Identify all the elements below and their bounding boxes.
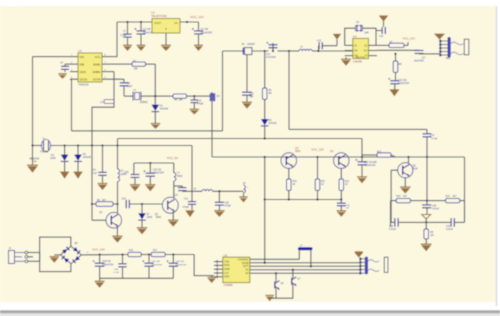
junction bbox=[310, 265, 312, 267]
transistor Q7 bbox=[292, 269, 301, 286]
capacitor C21 100uF bbox=[355, 156, 377, 176]
svg-text:T50962: T50962 bbox=[40, 151, 49, 154]
svg-text:C15: C15 bbox=[317, 41, 322, 43]
svg-text:0.01uF: 0.01uF bbox=[432, 208, 440, 210]
resistor R6 4K7 bbox=[92, 200, 118, 206]
power label VCC_5V bbox=[167, 156, 178, 160]
svg-text:DOT: DOT bbox=[243, 264, 249, 268]
svg-text:100uF/25V: 100uF/25V bbox=[201, 31, 213, 34]
capacitor C4 bbox=[60, 63, 70, 73]
wire rail to U2 VCC bbox=[105, 22, 118, 57]
svg-text:CM288: CM288 bbox=[353, 60, 362, 64]
svg-text:1N48: 1N48 bbox=[50, 158, 56, 160]
bus wire 5 bbox=[250, 272, 360, 274]
svg-text:TXD: TXD bbox=[224, 259, 229, 263]
power label VCC_12V mid bbox=[311, 147, 324, 151]
svg-text:C16: C16 bbox=[379, 36, 384, 38]
ground bbox=[190, 109, 200, 115]
svg-text:GND: GND bbox=[80, 70, 86, 74]
junction bbox=[172, 253, 174, 255]
junction bbox=[91, 203, 93, 205]
svg-text:R15: R15 bbox=[446, 196, 451, 198]
resistor R9 1M bbox=[424, 222, 434, 243]
svg-text:0.01uF: 0.01uF bbox=[389, 229, 397, 231]
wire 12V rail top bbox=[117, 21, 199, 23]
vcc5 wire bbox=[134, 162, 174, 164]
svg-text:4K7: 4K7 bbox=[453, 196, 458, 198]
svg-text:C29 CM: C29 CM bbox=[102, 261, 111, 263]
svg-text:1M: 1M bbox=[430, 235, 433, 237]
resistor R7 bbox=[377, 42, 408, 48]
junction bbox=[288, 50, 290, 52]
bridge rectifier D8 bbox=[61, 242, 82, 264]
wire mid rail bbox=[223, 50, 245, 52]
svg-text:GND: GND bbox=[224, 267, 230, 271]
wire U4 pin2 rail bbox=[345, 50, 353, 53]
ground bbox=[207, 276, 216, 283]
base wire Q1 bbox=[92, 219, 106, 221]
ground bbox=[123, 45, 132, 51]
junction bbox=[193, 95, 195, 97]
svg-text:C31 CM: C31 CM bbox=[152, 261, 160, 263]
wire mid rail 3 bbox=[319, 50, 345, 52]
capacitor C23 label bbox=[446, 226, 454, 231]
capacitor C25 1.1uF bbox=[124, 163, 139, 184]
junction bbox=[154, 95, 156, 97]
diode D7 1N4148 bbox=[138, 204, 152, 227]
ground pin U1 bbox=[161, 33, 171, 51]
capacitor C19 4.7uF bbox=[423, 129, 438, 157]
svg-text:C26 CM: C26 CM bbox=[153, 169, 162, 171]
crystal Y2 12MHz bbox=[131, 89, 148, 104]
crystal Y3 bbox=[355, 22, 368, 34]
wire loop L1 horizontal bbox=[72, 130, 223, 132]
junction bbox=[141, 203, 143, 205]
wire bottom chain bbox=[141, 254, 151, 256]
svg-text:78L05TO92: 78L05TO92 bbox=[151, 14, 167, 18]
jumper L7 bbox=[298, 244, 313, 266]
capacitor C29 100uF bbox=[93, 255, 114, 279]
junction bbox=[98, 253, 100, 255]
transistor Q2 8050 bbox=[155, 197, 179, 219]
capacitor C8 22pF bbox=[120, 79, 133, 96]
svg-text:VCC_12V: VCC_12V bbox=[311, 147, 324, 151]
capacitor C10 470pF bbox=[191, 96, 205, 109]
svg-text:470pF: 470pF bbox=[197, 103, 204, 105]
diode D6 1N4148 bbox=[261, 119, 277, 139]
wire base rail bbox=[212, 156, 465, 158]
component 15K bbox=[100, 100, 114, 104]
svg-text:1N4148: 1N4148 bbox=[268, 123, 277, 125]
inductor L6 bbox=[193, 189, 241, 192]
capacitor C15 bbox=[317, 41, 337, 51]
diode D5 bbox=[242, 43, 256, 54]
connector P3 body bbox=[365, 257, 388, 275]
wire mid rail 2 bbox=[252, 50, 289, 52]
svg-text:C28: C28 bbox=[225, 203, 230, 205]
svg-text:1.1uF: 1.1uF bbox=[113, 272, 119, 274]
junction bbox=[77, 144, 79, 146]
svg-text:22pF: 22pF bbox=[127, 86, 133, 88]
wire osc row 2 bbox=[144, 95, 173, 97]
power label VCC_12V bbox=[190, 15, 205, 19]
capacitor C12 470pF bbox=[182, 199, 196, 210]
wire osc row bbox=[124, 95, 131, 97]
jack wires bbox=[28, 253, 40, 262]
emitter Q2 ground bbox=[168, 212, 178, 227]
wire rail 455 bbox=[33, 145, 193, 147]
svg-text:R17: R17 bbox=[153, 250, 158, 252]
resistor R13 bbox=[362, 151, 395, 157]
junction bbox=[264, 156, 266, 201]
right edge line bbox=[496, 6, 497, 306]
wire INA to node bbox=[33, 56, 71, 58]
base wire bbox=[391, 170, 398, 222]
capacitor C7 0.1uF bbox=[120, 23, 131, 45]
bottom shadow line bbox=[0, 310, 500, 316]
regulator U1 78L05 bbox=[151, 11, 180, 33]
wire bottom chain 2 bbox=[165, 254, 194, 256]
wire down from rail bbox=[288, 51, 290, 129]
junction bbox=[126, 21, 128, 23]
capacitor C32 100uF bbox=[167, 255, 188, 279]
svg-text:4K7: 4K7 bbox=[403, 196, 408, 198]
svg-text:C14: C14 bbox=[266, 54, 271, 56]
emitter resistor R12 bbox=[339, 168, 350, 199]
ground bbox=[145, 184, 155, 191]
power label VCC_12V right bbox=[403, 37, 416, 41]
svg-text:MIC: MIC bbox=[446, 57, 451, 60]
ground bbox=[27, 146, 38, 173]
capacitor C27 0.1uF bbox=[174, 186, 187, 197]
diode D3 1N4148 bbox=[74, 146, 91, 172]
capacitor C2 100uF/25V bbox=[134, 23, 155, 45]
svg-text:VCC: VCC bbox=[95, 55, 101, 59]
svg-text:VO: VO bbox=[364, 50, 368, 53]
lower net top bbox=[391, 200, 465, 202]
wire right drop bbox=[464, 157, 466, 222]
wire feedback net bbox=[91, 146, 93, 221]
transistor Q1 9018 bbox=[99, 211, 121, 228]
svg-text:100uF/25V: 100uF/25V bbox=[102, 264, 114, 266]
svg-text:470pF: 470pF bbox=[225, 206, 232, 208]
capacitor C33 1uF bbox=[337, 200, 350, 211]
svg-text:0.1uF: 0.1uF bbox=[120, 34, 127, 37]
connector P3 pins bbox=[359, 257, 365, 274]
svg-text:DA0B: DA0B bbox=[242, 261, 249, 265]
bus wire 3 bbox=[250, 265, 360, 267]
svg-text:OUTB: OUTB bbox=[93, 77, 101, 81]
ground arrow bbox=[355, 251, 364, 257]
wire left rail drop bbox=[264, 157, 266, 200]
svg-text:12MHZ: 12MHZ bbox=[140, 101, 149, 104]
bottom rail bbox=[265, 199, 342, 201]
pin stubs U5 left bbox=[214, 260, 223, 278]
power label VCC_12V bottom bbox=[92, 248, 105, 252]
resistor R5 2M bbox=[262, 51, 272, 119]
svg-text:10K: 10K bbox=[179, 99, 184, 102]
connector P2 body bbox=[446, 37, 469, 60]
ground bbox=[242, 102, 252, 109]
wire to P2 bbox=[419, 53, 440, 55]
wire loop L2 bbox=[118, 138, 363, 140]
svg-text:1uF: 1uF bbox=[346, 208, 350, 210]
junction bbox=[407, 156, 409, 158]
resistor R17 bbox=[151, 250, 165, 257]
svg-text:C10: C10 bbox=[197, 100, 202, 102]
svg-text:C20: C20 bbox=[432, 205, 437, 207]
capacitor C13 47uF bbox=[246, 55, 248, 92]
capacitor C30 1.1uF bbox=[113, 255, 126, 279]
svg-text:9018: 9018 bbox=[412, 168, 418, 170]
label 7M bbox=[30, 157, 40, 163]
junction bbox=[121, 253, 123, 255]
connector P2 pins bbox=[439, 40, 447, 56]
capacitor C11 1.1uF bbox=[91, 146, 107, 184]
wire down bbox=[426, 157, 428, 201]
capacitor C28 470pF bbox=[215, 191, 232, 210]
svg-text:R16: R16 bbox=[129, 250, 134, 252]
svg-text:10MH: 10MH bbox=[121, 174, 127, 176]
svg-text:RXD: RXD bbox=[224, 263, 230, 267]
svg-text:INB: INB bbox=[80, 62, 85, 66]
svg-text:2M: 2M bbox=[268, 93, 271, 95]
wire node down left bbox=[32, 57, 34, 146]
svg-text:C22: C22 bbox=[389, 226, 394, 228]
capacitor C17 10uF bbox=[414, 50, 426, 63]
junction bbox=[218, 190, 220, 192]
svg-text:4.7uF: 4.7uF bbox=[432, 138, 438, 140]
ground arrow bbox=[239, 196, 247, 202]
svg-text:Vin: Vin bbox=[174, 21, 178, 25]
svg-text:INA: INA bbox=[80, 55, 85, 59]
wire osc row 3 bbox=[187, 95, 211, 97]
svg-text:VCC_12V: VCC_12V bbox=[92, 248, 105, 252]
junction bbox=[425, 221, 427, 223]
inductor L2 bbox=[289, 45, 319, 51]
junction bbox=[272, 50, 274, 52]
junction bbox=[288, 198, 343, 200]
svg-text:8050: 8050 bbox=[295, 150, 301, 153]
ground bbox=[130, 184, 140, 191]
svg-text:C17: C17 bbox=[422, 57, 427, 59]
svg-text:R10: R10 bbox=[293, 181, 298, 183]
ground bbox=[357, 176, 367, 183]
capacitor C26 100uF bbox=[143, 163, 164, 184]
capacitor C20 0.01uF bbox=[422, 201, 440, 215]
bridge loop wire 2 bbox=[40, 253, 71, 272]
wire collector Q1 bbox=[117, 186, 119, 213]
svg-text:C21 R=10R: C21 R=10R bbox=[365, 162, 377, 164]
crystal Y1 bbox=[40, 138, 51, 154]
svg-text:VCC_5V: VCC_5V bbox=[167, 156, 178, 160]
svg-text:C12: C12 bbox=[184, 199, 189, 201]
svg-text:VOUT: VOUT bbox=[154, 21, 162, 25]
svg-text:VPD: VPD bbox=[224, 275, 229, 279]
ground bbox=[137, 45, 146, 51]
capacitor C16 bbox=[376, 22, 386, 38]
junction bbox=[316, 156, 318, 158]
bus wire 4 bbox=[250, 269, 360, 271]
ground arrow bbox=[74, 172, 83, 179]
svg-text:C32 CM: C32 CM bbox=[176, 261, 184, 263]
resistor R16 bbox=[128, 250, 141, 257]
junction bbox=[264, 50, 266, 52]
junction bbox=[116, 144, 118, 146]
ground arrow bbox=[265, 295, 274, 301]
capacitor C22 label bbox=[389, 226, 397, 231]
lower net bottom bbox=[391, 201, 465, 227]
junction bbox=[317, 50, 319, 52]
ground bbox=[98, 183, 108, 190]
svg-text:100uF/16V: 100uF/16V bbox=[176, 264, 187, 266]
svg-text:10K: 10K bbox=[134, 67, 139, 70]
ground bbox=[337, 210, 347, 216]
wire lower join bbox=[391, 201, 465, 227]
wire L2 drop bbox=[361, 139, 363, 158]
diode D2 1N4148 bbox=[50, 146, 68, 172]
resistor R14 bbox=[396, 196, 410, 203]
transistor Q4 8050 bbox=[330, 150, 349, 168]
svg-text:47uF/16V: 47uF/16V bbox=[266, 57, 276, 59]
pin stubs U4 bbox=[345, 45, 377, 55]
svg-text:A1: A1 bbox=[245, 268, 249, 272]
svg-text:R14: R14 bbox=[396, 196, 401, 198]
svg-text:7M: 7M bbox=[33, 160, 36, 163]
ground bbox=[341, 57, 351, 66]
capacitor C18 100uF bbox=[388, 78, 410, 90]
emitter Q1 ground bbox=[112, 226, 122, 242]
junction bbox=[63, 144, 65, 146]
svg-text:1N4148: 1N4148 bbox=[83, 157, 92, 159]
resistor R11 bbox=[315, 157, 326, 200]
svg-text:0.01uF: 0.01uF bbox=[446, 229, 454, 231]
svg-text:1N4148: 1N4148 bbox=[160, 107, 169, 110]
svg-text:1N48: 1N48 bbox=[147, 217, 153, 219]
svg-text:100uF/16V: 100uF/16V bbox=[398, 83, 410, 85]
svg-text:A0: A0 bbox=[245, 271, 249, 275]
coupling capacitor C24 bbox=[122, 198, 162, 208]
svg-text:U2: U2 bbox=[78, 49, 82, 53]
wire down to U5 bbox=[264, 200, 266, 263]
svg-text:ENBL: ENBL bbox=[93, 62, 101, 66]
ground bbox=[421, 244, 432, 252]
svg-text:VCC_12V: VCC_12V bbox=[403, 37, 416, 41]
svg-text:C25: C25 bbox=[124, 172, 129, 174]
transistor Q6 bbox=[275, 272, 284, 289]
ground bbox=[137, 227, 147, 234]
ground bbox=[214, 210, 224, 217]
svg-text:1K: 1K bbox=[293, 184, 296, 186]
emitter resistor R10 bbox=[287, 168, 298, 199]
wire U4 out bbox=[377, 49, 419, 51]
ground arrow bbox=[390, 90, 399, 97]
bridge left ground bbox=[50, 252, 64, 263]
wire ENBH branch bbox=[92, 72, 114, 146]
resistor R3 10K bbox=[110, 60, 155, 70]
junction bbox=[101, 144, 103, 146]
junction bbox=[426, 199, 428, 201]
junction bbox=[91, 144, 93, 146]
wire osc down bbox=[211, 101, 213, 157]
svg-text:U5: U5 bbox=[224, 253, 228, 257]
junction bbox=[148, 253, 150, 255]
ground bbox=[95, 278, 105, 287]
ground bbox=[194, 45, 203, 51]
wire L1 right section bbox=[289, 128, 427, 130]
pin stubs U2 left bbox=[70, 54, 78, 79]
svg-text:470pF: 470pF bbox=[182, 207, 189, 209]
svg-text:VCC_12V: VCC_12V bbox=[190, 15, 205, 19]
ground arrow bbox=[333, 34, 341, 46]
junction bbox=[264, 262, 266, 264]
svg-text:100uF/16V: 100uF/16V bbox=[152, 264, 163, 266]
ic U4 bbox=[353, 35, 369, 64]
transistor Q3 8050 bbox=[281, 147, 301, 168]
crystal Y3 loop bbox=[345, 28, 376, 45]
bus wire 1 bbox=[250, 258, 299, 260]
wire regulator out bbox=[180, 21, 199, 23]
resistor R8 bbox=[393, 54, 402, 80]
bridge out wire bbox=[81, 252, 128, 255]
svg-text:C27: C27 bbox=[174, 195, 179, 197]
bottom wire Q6 Q7 bbox=[272, 285, 293, 298]
svg-text:C18 CM: C18 CM bbox=[398, 80, 407, 82]
op-amp U2 bbox=[78, 49, 102, 87]
ground arrow bbox=[434, 34, 445, 41]
bottom cap rail bbox=[100, 277, 174, 279]
resistor R4 10K bbox=[173, 94, 187, 102]
svg-text:100uF/16V: 100uF/16V bbox=[365, 165, 377, 167]
resistor R15 bbox=[446, 196, 460, 203]
junction bbox=[31, 144, 33, 146]
ground bbox=[58, 73, 67, 79]
wire OUTA down bbox=[70, 79, 72, 131]
svg-text:8050: 8050 bbox=[156, 217, 162, 219]
svg-text:1uF: 1uF bbox=[250, 97, 255, 99]
ground arrow bbox=[60, 172, 69, 179]
svg-text:VD: VD bbox=[354, 50, 358, 53]
ground arrow bbox=[186, 211, 195, 218]
capacitor C3 100uF/25V bbox=[186, 21, 213, 45]
inductor L4 bbox=[174, 163, 183, 198]
svg-text:CM688: CM688 bbox=[224, 283, 233, 287]
svg-text:C19: C19 bbox=[430, 135, 435, 137]
wire loop L1 vertical bbox=[222, 51, 224, 131]
junction bbox=[149, 162, 151, 164]
svg-text:C23: C23 bbox=[446, 226, 451, 228]
svg-text:R13: R13 bbox=[377, 151, 382, 153]
svg-text:12M: 12M bbox=[364, 32, 369, 35]
ground arrow open bbox=[422, 215, 431, 223]
wire R3 down to osc row bbox=[154, 64, 156, 96]
wire to U5 bbox=[194, 255, 214, 276]
ground bbox=[151, 123, 161, 129]
svg-text:OUTA: OUTA bbox=[80, 77, 88, 81]
junction bbox=[426, 156, 428, 158]
svg-text:1K: 1K bbox=[345, 184, 348, 186]
svg-text:74HC02: 74HC02 bbox=[78, 83, 89, 87]
svg-text:C24: C24 bbox=[122, 198, 127, 200]
junction bbox=[394, 53, 396, 55]
capacitor C13 plates bbox=[242, 92, 254, 102]
diode D1 1N4148 bbox=[152, 96, 169, 123]
wire rail down right end bbox=[191, 146, 193, 202]
svg-text:1N4007: 1N4007 bbox=[247, 44, 256, 46]
svg-text:U4: U4 bbox=[353, 35, 357, 39]
junction bbox=[264, 137, 266, 139]
svg-text:10uF/16V: 10uF/16V bbox=[414, 60, 424, 62]
